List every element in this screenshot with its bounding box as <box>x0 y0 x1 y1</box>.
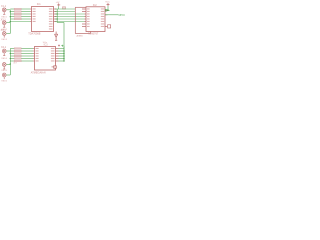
svg-text:VCC: VCC <box>105 1 110 3</box>
wire IC3 right rows <box>59 46 65 61</box>
wire row to resistor net 1 <box>55 8 75 10</box>
IC3 body <box>35 47 56 71</box>
IC3 right pins <box>56 49 59 62</box>
red net wire top <box>75 7 90 33</box>
wire VCC stem <box>107 6 109 10</box>
crystal Q2 <box>52 66 57 69</box>
connector X1 <box>2 8 6 14</box>
IC2 left pin names <box>87 8 90 27</box>
svg-text:MPXO: MPXO <box>119 15 125 17</box>
IC1 right pins <box>54 9 57 22</box>
IC1 right pin names <box>49 8 53 29</box>
resistor R4 <box>14 16 21 17</box>
IC3 right pin names <box>51 48 55 62</box>
resistor R9 <box>14 55 21 56</box>
svg-text:X2-1: X2-1 <box>1 18 7 21</box>
svg-text:TDA7056B: TDA7056B <box>28 32 41 35</box>
svg-text:PAD4: PAD4 <box>1 57 7 60</box>
junction dots left top <box>10 11 11 22</box>
bottom connector X5 <box>2 63 6 69</box>
bottom connector X4 <box>2 49 6 55</box>
resistor R3 <box>14 13 21 14</box>
wire row to resistor net 2 <box>55 11 75 13</box>
IC2 left pins <box>82 9 86 27</box>
svg-text:IC3: IC3 <box>44 43 49 46</box>
svg-text:+5V: +5V <box>56 2 60 4</box>
wire long vertical net <box>63 23 65 62</box>
connector X2 <box>2 21 6 27</box>
resistor R8 <box>14 53 21 54</box>
wire row to IC2 pin 6 <box>55 21 85 23</box>
IC2 right pin names <box>101 8 104 27</box>
wire rows into IC3 <box>10 49 33 62</box>
svg-text:PAD6: PAD6 <box>1 80 7 83</box>
svg-text:X1-1: X1-1 <box>1 5 7 8</box>
IC3 left pin names <box>36 48 39 62</box>
junction dots IC1 right <box>57 13 58 19</box>
resistor R1 <box>14 8 21 9</box>
antenna symbol <box>55 32 58 41</box>
IC1 body <box>32 7 54 32</box>
svg-text:AGND: AGND <box>77 34 84 37</box>
wire bus left bottom vertical <box>6 49 10 76</box>
bottom connector X6 <box>2 73 6 79</box>
wire row to IC2 pin 3 <box>55 13 85 15</box>
supply +5V symbol <box>57 3 60 6</box>
supply VCC symbol at IC2 <box>107 3 110 6</box>
svg-text:X4-1: X4-1 <box>1 46 7 49</box>
connector X3 <box>2 32 6 38</box>
wire row to IC2 pin 4 <box>55 16 85 18</box>
svg-text:TEA5767: TEA5767 <box>88 33 99 36</box>
IC2 right pins <box>105 10 108 26</box>
svg-text:X3-1: X3-1 <box>1 29 7 32</box>
resistor R7 <box>14 50 21 51</box>
wire rows into IC1 <box>10 9 30 22</box>
net flag arrow <box>106 9 110 11</box>
resistor R5 <box>14 18 21 19</box>
wire row 6 <box>10 21 30 23</box>
svg-text:PAD3: PAD3 <box>1 38 7 41</box>
wire bus left top vertical <box>6 10 10 34</box>
wire bus IC1 right vertical <box>56 9 58 23</box>
IC1 left pin names <box>33 8 36 22</box>
junction dot IC2 <box>107 10 108 11</box>
svg-text:IC1: IC1 <box>37 3 42 6</box>
IC3 left pins <box>33 49 34 62</box>
resistor R10 <box>14 58 21 59</box>
svg-text:IC2: IC2 <box>93 4 98 7</box>
resistor R6 <box>14 48 21 49</box>
resistor R2 <box>14 11 21 12</box>
svg-text:ATMEGA8-AI: ATMEGA8-AI <box>31 72 46 75</box>
IC2 body <box>86 7 105 32</box>
wire supply stem <box>58 6 60 9</box>
resistor R11 <box>14 60 21 61</box>
net flag green cross <box>61 45 63 47</box>
capacitor C1 <box>62 7 65 9</box>
svg-text:PAD5: PAD5 <box>1 69 7 72</box>
net flag red cross <box>58 45 60 47</box>
wire row to IC2 pin 5 <box>55 18 85 20</box>
IC1 left pins <box>30 9 31 22</box>
wire IC2 right out <box>105 14 118 16</box>
wire bus jog <box>57 22 64 24</box>
crystal Q1 <box>108 25 111 28</box>
junction dots left bottom <box>10 53 11 65</box>
junction dots IC3 right <box>63 50 64 61</box>
